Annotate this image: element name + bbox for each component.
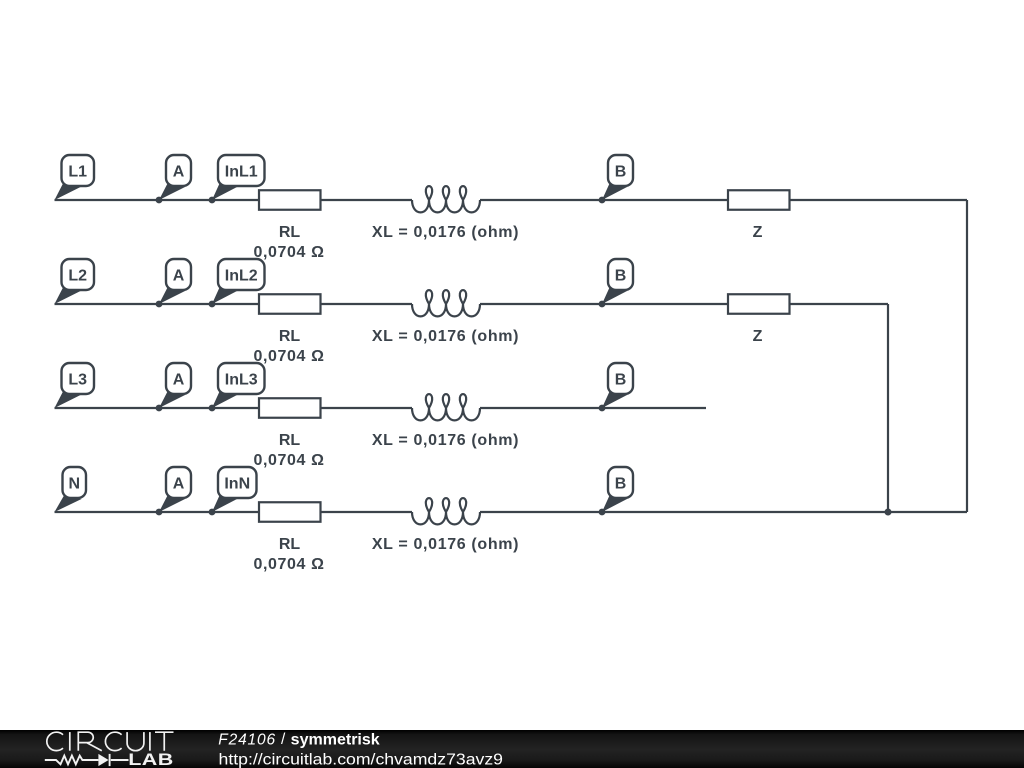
node InL2	[209, 259, 265, 307]
resistor RL (L2 row)	[259, 294, 321, 314]
svg-text:0,0704 Ω: 0,0704 Ω	[253, 348, 324, 365]
svg-text:B: B	[615, 371, 627, 388]
footer bar	[0, 730, 1024, 768]
node A (L2 row)	[156, 259, 191, 307]
node A (L1 row)	[156, 155, 191, 203]
svg-text:0,0704 Ω: 0,0704 Ω	[253, 244, 324, 261]
resistor RL (N row)	[259, 502, 321, 522]
node B (L1 row)	[599, 155, 633, 203]
wire N row, left segment	[55, 511, 413, 513]
resistor Z (L1 row)	[728, 190, 790, 210]
svg-text:symmetrisk: symmetrisk	[291, 731, 380, 748]
inductor XL (L2 row)	[412, 290, 480, 316]
svg-text:InN: InN	[224, 475, 250, 492]
node InL1	[209, 155, 265, 203]
wire L2 row, right segment	[480, 303, 888, 305]
svg-text:XL = 0,0176 (ohm): XL = 0,0176 (ohm)	[372, 328, 519, 345]
svg-text:B: B	[615, 267, 627, 284]
CircuitLab logo: CIRCUIT wordmark	[47, 732, 174, 751]
resistor RL (L3 row)	[259, 398, 321, 418]
svg-text:0,0704 Ω: 0,0704 Ω	[253, 452, 324, 469]
inductor XL (N row)	[412, 498, 480, 524]
svg-text:L3: L3	[68, 371, 87, 388]
svg-text:LAB: LAB	[128, 752, 173, 768]
svg-text:B: B	[615, 475, 627, 492]
svg-text:XL = 0,0176 (ohm): XL = 0,0176 (ohm)	[372, 536, 519, 553]
svg-text:XL = 0,0176 (ohm): XL = 0,0176 (ohm)	[372, 432, 519, 449]
svg-text:L2: L2	[68, 267, 87, 284]
svg-text:L1: L1	[68, 163, 87, 180]
svg-text:0,0704 Ω: 0,0704 Ω	[253, 556, 324, 573]
svg-text:F24106: F24106	[218, 731, 276, 748]
resistor RL (L1 row)	[259, 190, 321, 210]
svg-text:A: A	[173, 371, 185, 388]
net flag L3	[55, 363, 95, 408]
wire L2 row, left segment	[55, 303, 413, 305]
CircuitLab logo: resistor-diode symbol	[45, 754, 129, 766]
svg-text:B: B	[615, 163, 627, 180]
svg-text:RL: RL	[279, 328, 301, 345]
node B (L2 row)	[599, 259, 633, 307]
node InN	[209, 467, 257, 515]
wire N row, right segment	[480, 511, 967, 513]
svg-text:http://circuitlab.com/chvamdz7: http://circuitlab.com/chvamdz73avz9	[219, 752, 504, 768]
svg-text:RL: RL	[279, 432, 301, 449]
svg-text:RL: RL	[279, 224, 301, 241]
CircuitLab logo: LAB	[128, 752, 173, 768]
svg-text:/: /	[281, 731, 286, 748]
net flag N	[55, 467, 87, 512]
resistor Z (L2 row)	[728, 294, 790, 314]
svg-text:Z: Z	[753, 224, 763, 241]
wire L3 row, right segment	[480, 407, 706, 409]
wire vertical from L1 row to N row	[966, 200, 968, 512]
svg-text:A: A	[173, 475, 185, 492]
svg-text:InL3: InL3	[225, 371, 258, 388]
svg-text:InL2: InL2	[225, 267, 258, 284]
node B (N row)	[599, 467, 633, 515]
junction of L2 vertical with N wire	[885, 509, 892, 516]
inductor XL (L3 row)	[412, 394, 480, 420]
inductor XL (L1 row)	[412, 186, 480, 212]
svg-text:RL: RL	[279, 536, 301, 553]
wire L3 row, left segment	[55, 407, 413, 409]
wire vertical from L2 row to N row	[887, 304, 889, 512]
wire L1 row, left segment	[55, 199, 413, 201]
node InL3	[209, 363, 265, 411]
svg-text:XL = 0,0176 (ohm): XL = 0,0176 (ohm)	[372, 224, 519, 241]
wire L1 row, right segment	[480, 199, 967, 201]
svg-text:Z: Z	[753, 328, 763, 345]
svg-text:InL1: InL1	[225, 163, 258, 180]
node A (N row)	[156, 467, 191, 515]
node A (L3 row)	[156, 363, 191, 411]
node B (L3 row)	[599, 363, 633, 411]
net flag L1	[55, 155, 95, 200]
svg-text:A: A	[173, 163, 185, 180]
net flag L2	[55, 259, 95, 304]
svg-text:N: N	[68, 475, 80, 492]
svg-text:A: A	[173, 267, 185, 284]
